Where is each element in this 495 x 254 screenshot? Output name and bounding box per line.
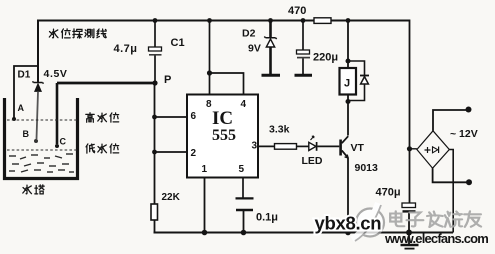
wire: relay bottom lead xyxy=(347,95,349,136)
svg-text:LED: LED xyxy=(302,155,323,167)
svg-text:9013: 9013 xyxy=(355,162,379,174)
wire: thick lead from node P to electrode C xyxy=(57,82,155,85)
wire: detector line vertical drop (top-left) xyxy=(37,20,39,83)
ground (main) xyxy=(401,233,419,249)
wire: bridge top AC lead xyxy=(433,110,468,131)
op-amp U1: IC 555 box xyxy=(187,95,258,178)
node: relay rail junction xyxy=(346,18,351,23)
wire: pin 1 to ground rail xyxy=(204,178,206,233)
wire: pin 5 lead xyxy=(242,178,244,198)
svg-text:www.elecfans.com: www.elecfans.com xyxy=(384,231,488,246)
svg-text:4.5V: 4.5V xyxy=(44,68,68,80)
wire: electrode A L-shaped lead xyxy=(14,66,38,119)
svg-text:J: J xyxy=(344,78,350,90)
wire: C1 top lead xyxy=(154,21,156,48)
node: D2 rail junction xyxy=(268,18,273,23)
node: junction to pin 6 xyxy=(152,115,157,120)
svg-text:9V: 9V xyxy=(248,43,261,55)
svg-text:4.7μ: 4.7μ xyxy=(114,43,138,55)
svg-text:VT: VT xyxy=(351,142,365,154)
label 低水位 xyxy=(86,144,119,153)
wire: vertical bus from P down to bottom rail xyxy=(154,83,156,204)
svg-text:22K: 22K xyxy=(162,192,181,203)
svg-text:B: B xyxy=(23,129,30,139)
svg-text:D1: D1 xyxy=(18,70,31,81)
svg-text:470μ: 470μ xyxy=(376,187,401,199)
resistor 22k xyxy=(151,204,158,220)
node: flyback top junction xyxy=(346,59,351,64)
svg-text:4: 4 xyxy=(241,99,247,110)
watermark 电子发烧友 xyxy=(390,211,481,227)
svg-text:2: 2 xyxy=(191,148,197,159)
svg-text:~ 12V: ~ 12V xyxy=(450,128,478,140)
node: bridge left junction xyxy=(407,146,412,151)
electrode B (from D1 down into tank, grey) xyxy=(37,92,39,140)
capacitor C1 (electrolytic plates) xyxy=(149,47,162,55)
label 水塔 xyxy=(23,185,44,194)
wire: branch to pin 4 xyxy=(210,73,244,95)
wire: right supply drop xyxy=(409,20,411,204)
node: pin8/pin4 junction xyxy=(207,70,212,75)
resistor 470 (on top rail) xyxy=(314,18,331,24)
wire: 22k bottom to rail corner xyxy=(154,220,156,233)
wire: C1 bottom lead to node P xyxy=(154,56,156,84)
watermark logo circle (elecfans) xyxy=(352,203,384,241)
wire: stub to pin 2 xyxy=(155,151,188,153)
transistor VT 9013 xyxy=(341,136,349,158)
node: flyback bottom junction xyxy=(346,99,351,104)
LED D3 xyxy=(309,136,317,151)
svg-text:220μ: 220μ xyxy=(313,52,338,64)
svg-text:8: 8 xyxy=(206,99,212,110)
electrode C (thick vertical into tank) xyxy=(56,83,59,144)
svg-text:5: 5 xyxy=(239,164,245,175)
water surface marks inside tank xyxy=(9,154,74,172)
label 水位探测线 xyxy=(49,29,106,38)
wire: relay top lead xyxy=(347,21,349,69)
wire: pin 8 supply drop xyxy=(209,21,211,95)
ground (D2) xyxy=(262,74,281,77)
wire: bottom ground rail xyxy=(154,232,454,234)
wire: stub to pin 6 xyxy=(155,116,188,118)
node: main ground junction xyxy=(406,230,412,236)
node: high water dashed level line xyxy=(7,119,78,121)
svg-text:1: 1 xyxy=(202,164,208,175)
capacitor 220μ xyxy=(297,50,311,58)
water tank 水塔 walls xyxy=(3,98,79,180)
svg-text:A: A xyxy=(18,103,25,113)
bridge rectifier xyxy=(410,131,450,168)
diode D1 (zener, cathode bar on top) xyxy=(33,81,44,91)
node: C1 top junction xyxy=(153,18,158,23)
wire: resistor to LED xyxy=(297,145,309,147)
capacitor 0.1μ xyxy=(236,198,254,210)
wire: 0.1μ bottom lead xyxy=(243,211,245,233)
capacitor 470μ xyxy=(402,203,416,211)
node: pin1 rail junction xyxy=(202,230,208,236)
svg-text:3: 3 xyxy=(252,141,258,152)
svg-text:555: 555 xyxy=(212,127,236,144)
relay J coil box xyxy=(340,68,357,95)
svg-text:470: 470 xyxy=(288,5,306,17)
node: AC terminal top xyxy=(466,107,472,113)
svg-text:3.3k: 3.3k xyxy=(269,124,290,136)
resistor 3.3k xyxy=(275,144,297,150)
svg-text:ybx8.cn: ybx8.cn xyxy=(315,213,382,234)
svg-text:0.1μ: 0.1μ xyxy=(256,212,278,224)
node: emitter rail junction xyxy=(345,230,351,236)
node P xyxy=(152,80,157,85)
wire: pin 3 output lead xyxy=(258,145,275,147)
wire: top supply rail xyxy=(38,20,410,22)
diode (flyback across relay) xyxy=(348,61,369,101)
svg-text:P: P xyxy=(164,74,171,86)
wire: bridge bottom AC lead xyxy=(433,168,469,182)
wire: 220μ bottom lead xyxy=(302,59,304,75)
svg-text:6: 6 xyxy=(191,111,197,122)
node: rail junction above pin 8 xyxy=(207,18,212,23)
wire: emitter to ground rail xyxy=(347,158,349,233)
wire: 220μ top lead xyxy=(302,21,304,51)
node: AC terminal bottom xyxy=(466,179,472,185)
svg-text:C1: C1 xyxy=(171,37,185,49)
node: junction to pin 2 xyxy=(152,150,157,155)
wire: bridge right (minus) to ground rail xyxy=(449,150,453,233)
label 高水位 xyxy=(86,113,119,123)
wire: 470μ bottom lead xyxy=(408,213,410,233)
diode D2 zener 9V xyxy=(264,21,276,75)
node: 220μ rail junction xyxy=(301,18,306,23)
svg-text:C: C xyxy=(60,137,67,147)
node: low water dashed level line xyxy=(7,149,78,151)
wire: LED to base xyxy=(318,145,340,147)
svg-text:IC: IC xyxy=(212,108,233,129)
node: 0.1μ rail junction xyxy=(241,230,247,236)
ground (220μ) xyxy=(295,74,313,77)
svg-text:D2: D2 xyxy=(242,28,256,40)
